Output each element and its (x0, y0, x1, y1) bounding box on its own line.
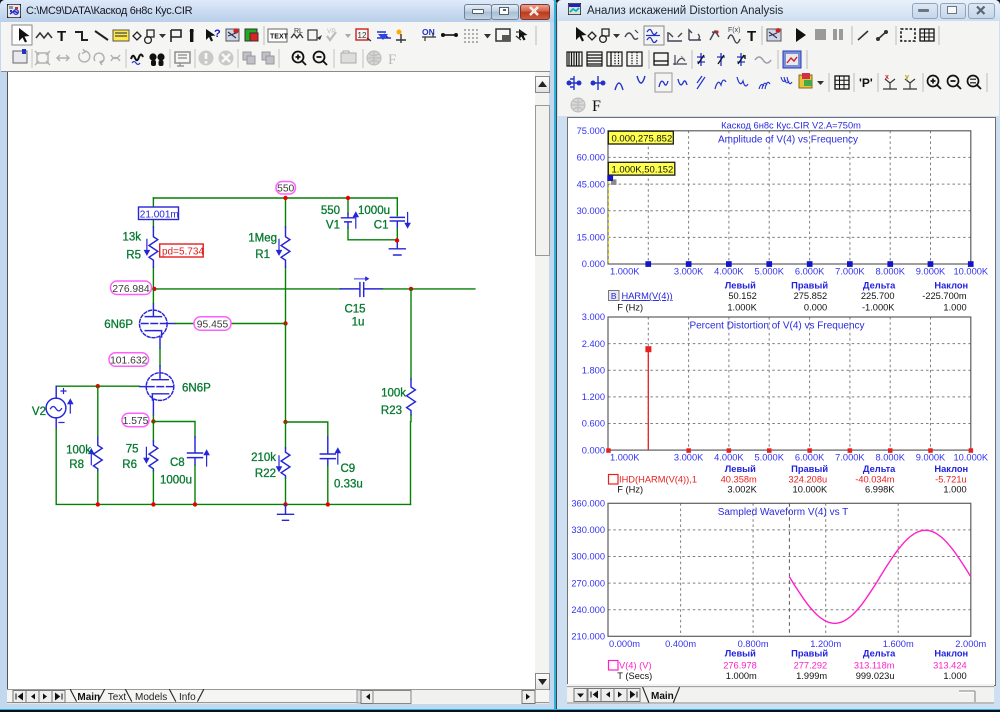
svg-text:6N6P: 6N6P (182, 383, 211, 395)
svg-text:Дельта: Дельта (863, 649, 896, 659)
node 276.984 bubble (111, 281, 152, 295)
resistor R6 (152, 422, 154, 442)
svg-text:313.118m: 313.118m (854, 660, 895, 670)
svg-text:F (Hz): F (Hz) (617, 485, 643, 495)
svg-text:Дельта: Дельта (863, 280, 896, 290)
svg-text:3.000K: 3.000K (674, 267, 704, 277)
svg-text:275.852: 275.852 (794, 291, 828, 301)
svg-text:6.000K: 6.000K (795, 453, 825, 463)
h scrollbar (357, 690, 361, 703)
svg-text:240.000: 240.000 (571, 605, 605, 615)
svg-text:50.152: 50.152 (728, 291, 756, 301)
wire grid lower tube (56, 385, 139, 387)
svg-text:C9: C9 (341, 463, 356, 475)
svg-text:30.000: 30.000 (577, 206, 605, 216)
svg-text:1.000K: 1.000K (610, 453, 640, 463)
svg-text:Amplitude of V(4) vs Frequency: Amplitude of V(4) vs Frequency (718, 135, 858, 146)
svg-text:6.998K: 6.998K (865, 485, 895, 495)
svg-text:Sampled Waveform V(4) vs T: Sampled Waveform V(4) vs T (718, 507, 849, 518)
svg-text:1.600m: 1.600m (883, 639, 914, 649)
client area (plots) (567, 117, 996, 686)
svg-text:Main: Main (651, 691, 674, 702)
svg-text:1.999m: 1.999m (796, 671, 827, 681)
node dot plate node (152, 287, 156, 291)
svg-text:270.000: 270.000 (571, 578, 605, 588)
vertical scrollbar (535, 72, 549, 689)
plot2 readout (725, 464, 968, 474)
left window app icon (7, 4, 21, 18)
bottom tab bar + h scrollbar (7, 689, 549, 704)
svg-text:75: 75 (126, 444, 139, 456)
svg-text:1Meg: 1Meg (248, 233, 277, 245)
svg-text:6.000K: 6.000K (795, 267, 825, 277)
svg-text:IHD(HARM(V(4)),1: IHD(HARM(V(4)),1 (619, 474, 697, 484)
svg-text:7.000K: 7.000K (835, 267, 865, 277)
node dot grid/R1 (283, 321, 287, 325)
svg-text:8.000K: 8.000K (875, 267, 905, 277)
svg-text:330.000: 330.000 (571, 525, 605, 535)
svg-text:1.200m: 1.200m (810, 639, 841, 649)
svg-text:C1: C1 (374, 220, 389, 232)
svg-text:Правый: Правый (791, 649, 828, 659)
svg-text:225.700: 225.700 (861, 291, 895, 301)
node 95.455 bubble (194, 317, 231, 331)
wire cathode node (152, 415, 154, 421)
svg-text:R6: R6 (122, 459, 137, 471)
capacitor C9 (320, 437, 340, 466)
svg-text:y: y (905, 74, 909, 81)
node 1.575 bubble (122, 413, 149, 427)
svg-text:5.000K: 5.000K (754, 267, 784, 277)
svg-text:3.000: 3.000 (582, 312, 605, 322)
svg-text:12: 12 (358, 31, 367, 40)
svg-text:1.800: 1.800 (582, 365, 605, 375)
svg-text:4.000K: 4.000K (714, 453, 744, 463)
node dot 550/V1 (346, 196, 350, 200)
svg-text:Наклон: Наклон (934, 464, 968, 474)
svg-text:13k: 13k (122, 232, 141, 244)
svg-text:0.400m: 0.400m (665, 639, 696, 649)
svg-text:Каскод 6н8с Кус.CIR V2.A=750m: Каскод 6н8с Кус.CIR V2.A=750m (721, 121, 861, 131)
svg-text:8.000K: 8.000K (875, 453, 905, 463)
svg-text:Дельта: Дельта (863, 464, 896, 474)
svg-text:1.200: 1.200 (582, 392, 605, 402)
svg-text:9.000K: 9.000K (916, 453, 946, 463)
svg-text:21.001m: 21.001m (140, 209, 179, 220)
svg-text:R22: R22 (255, 468, 276, 480)
right window app icon (568, 3, 581, 15)
svg-text:B: B (611, 291, 617, 301)
resistor R1 branch wires (285, 198, 287, 227)
cyan edge between windows (554, 0, 556, 710)
left window title bar (0, 0, 557, 22)
svg-text:101.632: 101.632 (110, 356, 147, 367)
node dot C15/R23 (409, 287, 413, 291)
plot1 readout (725, 280, 968, 290)
svg-text:0.000: 0.000 (582, 259, 605, 269)
toolbars (558, 21, 999, 116)
transistor (triode) U2 6N6P lower (139, 366, 173, 415)
svg-text:Правый: Правый (791, 464, 828, 474)
svg-text:7.000K: 7.000K (835, 453, 865, 463)
label 21.001m (139, 207, 179, 220)
svg-text:0.000,275.852: 0.000,275.852 (612, 133, 673, 144)
capacitor C1 (396, 198, 398, 216)
svg-text:1.000K,50.152: 1.000K,50.152 (612, 164, 674, 175)
svg-text:1u: 1u (352, 317, 365, 329)
tabs (7, 689, 549, 702)
wire R1 node down to R22 node (285, 324, 287, 423)
svg-text:0.000: 0.000 (582, 445, 605, 455)
svg-text:550: 550 (321, 205, 340, 217)
svg-text:Main: Main (77, 692, 100, 703)
svg-text:Наклон: Наклон (934, 649, 968, 659)
svg-text:1.000: 1.000 (943, 302, 966, 312)
svg-text:x: x (885, 74, 889, 81)
svg-text:F: F (592, 98, 601, 115)
svg-text:Левый: Левый (725, 649, 756, 659)
svg-text:5.000K: 5.000K (754, 453, 784, 463)
svg-text:-225.700m: -225.700m (922, 291, 967, 301)
svg-text:1000u: 1000u (160, 475, 192, 487)
svg-text:100k: 100k (381, 388, 406, 400)
svg-text:276.984: 276.984 (112, 284, 149, 295)
svg-text:Info: Info (179, 692, 196, 703)
svg-text:4.000K: 4.000K (714, 267, 744, 277)
wire ground rail (56, 503, 410, 505)
capacitor C8 (188, 437, 209, 466)
wire between tubes (159, 348, 161, 366)
svg-text:360.000: 360.000 (571, 499, 605, 509)
svg-text:1.000K: 1.000K (727, 302, 757, 312)
svg-text:Левый: Левый (725, 464, 756, 474)
svg-text:RL: RL (294, 28, 303, 35)
node dot V1-C1 bottom (395, 238, 399, 242)
svg-text:V(4) (V): V(4) (V) (619, 660, 652, 670)
svg-text:Правый: Правый (791, 280, 828, 290)
svg-text:pd=5.734: pd=5.734 (162, 247, 204, 258)
op-amp (triode) U1 6N6P upper (140, 304, 176, 349)
svg-text:313.424: 313.424 (933, 660, 967, 670)
svg-text:T: T (57, 28, 66, 45)
svg-text:1.000m: 1.000m (726, 671, 757, 681)
svg-text:F(x): F(x) (728, 27, 740, 34)
svg-text:V2: V2 (32, 406, 46, 418)
svg-text:75.000: 75.000 (577, 126, 605, 136)
svg-text:HARM(V(4)): HARM(V(4)) (622, 291, 673, 301)
plot3 readout (725, 649, 968, 659)
svg-text:Левый: Левый (725, 280, 756, 290)
wire R22 node to C9 (286, 422, 328, 437)
node dot grid/R8 (96, 384, 100, 388)
svg-text:F: F (388, 52, 396, 68)
wire top +550 rail (153, 197, 397, 199)
resistor R1 (277, 227, 290, 267)
svg-text:Models: Models (135, 692, 167, 703)
svg-text:95.455: 95.455 (197, 320, 229, 331)
wire cathode to C8 (153, 422, 195, 438)
svg-text:V1: V1 (326, 220, 340, 232)
svg-text:100k: 100k (66, 445, 91, 457)
ground symbol (278, 504, 294, 520)
svg-text:1.000: 1.000 (943, 485, 966, 495)
svg-text:VP: VP (327, 28, 336, 35)
svg-text:TEXT: TEXT (270, 34, 289, 41)
bottom dark strip (0, 710, 1000, 712)
label pd=5.734 (160, 244, 205, 258)
svg-text:3.002K: 3.002K (727, 485, 757, 495)
svg-text:-40.034m: -40.034m (855, 474, 895, 484)
svg-text:999.023u: 999.023u (856, 671, 895, 681)
svg-text:40.358m: 40.358m (721, 474, 757, 484)
svg-text:45.000: 45.000 (577, 179, 605, 189)
svg-text:R1: R1 (255, 249, 270, 261)
node 101.632 bubble (109, 353, 149, 367)
caption buttons (aero) (464, 4, 492, 20)
toolbars background (1, 22, 550, 72)
svg-text:550: 550 (277, 184, 294, 195)
wire R5 branch verticals (152, 198, 154, 227)
svg-text:Text: Text (108, 692, 127, 703)
svg-text:10.000K: 10.000K (793, 485, 828, 495)
svg-text:0.33u: 0.33u (334, 479, 363, 491)
svg-text:'P': 'P' (859, 76, 873, 90)
resize grip (959, 691, 975, 702)
svg-text:0.000: 0.000 (804, 302, 827, 312)
svg-text:324.208u: 324.208u (788, 474, 827, 484)
svg-text:10.000K: 10.000K (953, 453, 988, 463)
svg-text:-5.721u: -5.721u (935, 474, 967, 484)
svg-text:277.292: 277.292 (794, 660, 828, 670)
bottom tab bar (567, 684, 994, 704)
resistor R5 (145, 227, 158, 267)
svg-text:?: ? (214, 28, 221, 40)
sine source V2 (55, 386, 57, 398)
svg-text:10.000K: 10.000K (953, 267, 988, 277)
node dot R22 top (283, 420, 287, 424)
caption buttons (inactive style) (912, 3, 938, 19)
wire grid upper tube (175, 323, 286, 325)
svg-text:2.000m: 2.000m (955, 639, 986, 649)
svg-text:276.978: 276.978 (723, 660, 757, 670)
svg-text:-1.000K: -1.000K (862, 302, 895, 312)
right window title bar (557, 0, 1000, 21)
svg-text:1.000: 1.000 (943, 671, 966, 681)
svg-text:R23: R23 (381, 405, 402, 417)
resistor R8 branch (97, 386, 99, 437)
svg-text:Percent Distortion of V(4) vs: Percent Distortion of V(4) vs Frequency (689, 321, 864, 332)
svg-text:6N6P: 6N6P (104, 319, 133, 331)
yellow cursor tags (608, 181, 610, 264)
svg-text:R5: R5 (126, 250, 141, 262)
svg-text:300.000: 300.000 (571, 552, 605, 562)
battery V1 (347, 198, 349, 214)
svg-text:Наклон: Наклон (934, 280, 968, 290)
bottom cyan edge (0, 709, 1000, 711)
svg-text:C15: C15 (344, 304, 365, 316)
svg-text:T: T (747, 28, 756, 45)
resistor R22 (285, 422, 287, 448)
node dot 550/R1 (283, 196, 287, 200)
wire anode node horizontal (154, 288, 340, 290)
client area (schematic) (7, 72, 536, 689)
svg-text:T (Secs): T (Secs) (617, 671, 652, 681)
wire V2 down to rail (55, 429, 57, 504)
svg-text:60.000: 60.000 (577, 153, 605, 163)
svg-text:15.000: 15.000 (577, 233, 605, 243)
svg-text:2.400: 2.400 (582, 339, 605, 349)
svg-text:0.600: 0.600 (582, 419, 605, 429)
resistor R23 branch (410, 289, 412, 379)
svg-text:1000u: 1000u (358, 205, 390, 217)
capacitor C15 (340, 276, 382, 296)
svg-text:1.000K: 1.000K (610, 267, 640, 277)
svg-text:0.800m: 0.800m (738, 639, 769, 649)
svg-text:F (Hz): F (Hz) (617, 302, 643, 312)
ground below C1 (389, 240, 405, 255)
svg-text:R8: R8 (69, 459, 84, 471)
svg-text:210k: 210k (251, 452, 276, 464)
svg-text:C8: C8 (170, 457, 185, 469)
svg-text:3.000K: 3.000K (674, 453, 704, 463)
svg-text:0.000m: 0.000m (609, 639, 640, 649)
node 550 bubble (276, 182, 296, 195)
svg-text:210.000: 210.000 (571, 632, 605, 642)
svg-text:9.000K: 9.000K (916, 267, 946, 277)
svg-text:1.575: 1.575 (123, 416, 149, 427)
node dots on ground rail (96, 502, 100, 506)
